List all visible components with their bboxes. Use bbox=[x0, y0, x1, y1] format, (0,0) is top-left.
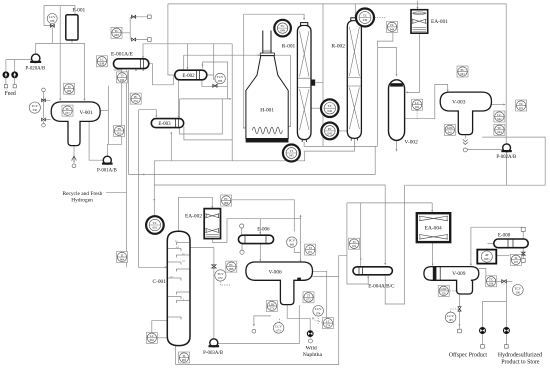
wire signal LCV-105 bbox=[451, 309, 460, 312]
svg-text:LDC: LDC bbox=[441, 287, 447, 291]
wire signal LCV-V006 bbox=[317, 316, 319, 325]
svg-text:TI: TI bbox=[68, 85, 71, 89]
svg-text:LCV: LCV bbox=[275, 324, 282, 328]
controller LCV-073 bbox=[273, 323, 284, 334]
svg-text:Recycle and Fresh: Recycle and Fresh bbox=[62, 191, 102, 197]
svg-text:043: 043 bbox=[460, 73, 465, 76]
svg-text:LC: LC bbox=[415, 101, 419, 105]
wire R-002 bottom outlet to left bbox=[154, 138, 354, 160]
svg-text:E-006: E-006 bbox=[257, 227, 270, 232]
wire offspec to tank stub bbox=[482, 334, 484, 345]
arrowhead E-002 shell loop bbox=[202, 64, 204, 66]
feed stub square A bbox=[4, 85, 7, 88]
svg-text:071: 071 bbox=[308, 251, 313, 254]
air cooler EA-004 bbox=[417, 213, 450, 242]
wire long separator liquid line bbox=[129, 70, 376, 174]
svg-text:064: 064 bbox=[120, 258, 125, 261]
svg-text:Wild: Wild bbox=[306, 345, 317, 351]
vessel V-009 bbox=[424, 267, 479, 294]
svg-text:PCV: PCV bbox=[289, 239, 296, 243]
exchanger E-008 bbox=[494, 239, 528, 248]
furnace H-001 bbox=[246, 31, 288, 143]
wire V-001 inlet header bbox=[36, 43, 85, 100]
svg-text:R-001: R-001 bbox=[282, 43, 296, 49]
svg-text:TCV: TCV bbox=[32, 104, 39, 108]
instrument TC-037 bbox=[62, 105, 73, 116]
instrument LDC-105 bbox=[438, 285, 449, 296]
wire E-002 shell loop bbox=[203, 62, 228, 86]
svg-text:PC: PC bbox=[229, 263, 233, 267]
instrument TI-063 bbox=[179, 352, 190, 363]
svg-text:Naphtha: Naphtha bbox=[303, 352, 323, 358]
svg-text:V-003: V-003 bbox=[452, 99, 466, 105]
V-001 drain valve bbox=[42, 118, 46, 121]
wire product to store stub bbox=[505, 334, 507, 345]
svg-text:V-001: V-001 bbox=[80, 110, 94, 116]
pump P-002A/B bbox=[501, 144, 511, 152]
svg-text:102: 102 bbox=[352, 245, 357, 248]
V-009 drain square bbox=[458, 329, 462, 333]
instrument PC-045 loop bbox=[321, 122, 338, 139]
wire signal LC-074 link bbox=[313, 320, 322, 323]
instrument TI-107 bbox=[510, 254, 521, 265]
wire E-008 upper stub bbox=[522, 231, 524, 239]
instrument PC-060 bbox=[221, 195, 232, 206]
arrowhead V-002 bottoms bbox=[396, 149, 398, 151]
controller LCV-074 bbox=[313, 306, 324, 317]
svg-text:E-001A/E: E-001A/E bbox=[111, 51, 134, 57]
arrowhead E-006 out bbox=[259, 259, 261, 261]
product to store valve bbox=[503, 328, 509, 334]
arrowhead into EA-002 bbox=[211, 206, 213, 208]
wire E-008 lower stub bbox=[522, 248, 524, 259]
svg-text:009: 009 bbox=[67, 90, 72, 93]
svg-text:P-001A/B: P-001A/B bbox=[97, 168, 118, 173]
wire C-001 reboil loop bbox=[152, 321, 167, 332]
relief square lower bbox=[148, 38, 152, 42]
svg-text:TC: TC bbox=[497, 126, 501, 130]
svg-text:036: 036 bbox=[33, 109, 38, 112]
instrument LDC-041 bbox=[444, 124, 455, 135]
instrument TI-064 bbox=[117, 252, 128, 263]
svg-text:074: 074 bbox=[316, 312, 321, 315]
svg-text:038: 038 bbox=[100, 63, 105, 66]
wire signal AT-E008 bbox=[486, 248, 488, 250]
valve on E-008 stub bbox=[521, 252, 525, 255]
instrument TC-048 F-001 bbox=[111, 27, 122, 38]
wire wild naphtha valve drop bbox=[309, 318, 311, 338]
wire wild naphtha line bbox=[287, 305, 310, 319]
svg-text:069: 069 bbox=[290, 244, 295, 247]
column C-001 tray numbers bbox=[170, 240, 185, 301]
air cooler EA-002 bbox=[204, 209, 220, 239]
instrument PC-068 bbox=[226, 261, 237, 272]
wire P-002 suction bbox=[468, 149, 503, 151]
arrowhead into C-001 feed nozzle bbox=[165, 266, 167, 268]
wire F-001 outlet drop bbox=[71, 40, 73, 43]
V-001 drain circle bbox=[42, 123, 46, 127]
wire F-001 top loop bbox=[44, 6, 75, 15]
svg-text:046: 046 bbox=[328, 109, 333, 113]
wire E-002 top drop bbox=[187, 44, 189, 69]
instrument LC-042 bbox=[494, 111, 505, 122]
svg-text:049: 049 bbox=[390, 28, 395, 31]
arrowhead E-001A/E bottom b bbox=[142, 69, 144, 71]
wire V-003 boot outlet bbox=[464, 135, 466, 139]
controller TCV-036 bbox=[29, 102, 40, 113]
pump P-003A/B bbox=[209, 339, 220, 347]
controller LCV-105 bbox=[445, 312, 456, 323]
svg-text:072: 072 bbox=[306, 299, 311, 302]
instrument TC-061 loop bbox=[146, 216, 164, 234]
arrowhead into E-004 top bbox=[384, 263, 386, 265]
wire R-002 PC tap bbox=[339, 130, 347, 132]
svg-text:TC: TC bbox=[114, 29, 118, 33]
svg-text:061: 061 bbox=[153, 226, 158, 230]
offspec stub square bbox=[481, 345, 485, 349]
wire E-008 left stub bbox=[488, 242, 494, 244]
arrowhead into E-002 top bbox=[187, 67, 189, 69]
arrowhead into EA-001 bbox=[417, 7, 419, 9]
svg-text:070: 070 bbox=[218, 277, 223, 280]
wire E-008 outlet to V-009 bbox=[470, 227, 472, 265]
controller TCV-070 bbox=[215, 270, 226, 281]
wire V-002 gas to V-003 bbox=[405, 84, 448, 118]
svg-text:106: 106 bbox=[516, 291, 521, 294]
V-001 vent circle bbox=[42, 88, 46, 92]
svg-text:TC: TC bbox=[363, 14, 368, 18]
wire F-001 relief header bbox=[122, 17, 148, 40]
svg-text:Hydrogen: Hydrogen bbox=[71, 197, 93, 203]
wire E-002 to E-003 bbox=[178, 80, 180, 118]
wire R-001 bottom outlet bbox=[304, 142, 377, 147]
wire V-009 boot outlet bbox=[459, 294, 461, 330]
pump P-001A/B bbox=[102, 156, 113, 164]
wire stripping gas to V-001 bbox=[59, 6, 61, 100]
svg-text:TC: TC bbox=[280, 24, 285, 28]
wild naphtha circle bbox=[308, 339, 312, 343]
svg-text:106: 106 bbox=[489, 283, 494, 286]
instrument LC-041 bbox=[412, 99, 423, 110]
wire branch to EA-004 bbox=[431, 203, 433, 212]
svg-text:Feed: Feed bbox=[5, 91, 16, 97]
arrowhead long line junction bbox=[143, 173, 145, 175]
wire E-006 vent stem bbox=[241, 228, 243, 235]
svg-text:TC: TC bbox=[328, 104, 333, 108]
svg-text:P-002A/B: P-002A/B bbox=[496, 155, 517, 160]
svg-text:062: 062 bbox=[150, 339, 155, 342]
svg-text:LDC: LDC bbox=[447, 126, 453, 130]
wire R-002 feed riser bbox=[377, 33, 393, 147]
svg-text:TI: TI bbox=[309, 246, 312, 250]
V-001 drain circle small bbox=[72, 164, 76, 168]
wire V-001 gas riser bbox=[107, 86, 109, 145]
svg-text:044: 044 bbox=[497, 131, 502, 134]
arrowhead into V-009 top right bbox=[470, 264, 472, 266]
wire C-001 overhead to EA-002 bbox=[179, 197, 213, 231]
svg-text:TI: TI bbox=[121, 74, 124, 78]
instrument TS-051 bbox=[114, 125, 125, 136]
svg-text:LCV: LCV bbox=[315, 307, 322, 311]
svg-text:TCV: TCV bbox=[217, 75, 224, 79]
wire V-009 gas outlet bbox=[479, 268, 486, 275]
furnace H-001 radiant coil bbox=[252, 127, 282, 134]
instrument PC-052 bbox=[130, 93, 141, 104]
relief valve lower bbox=[132, 38, 136, 41]
controller TCV-050 bbox=[215, 73, 225, 83]
svg-text:073: 073 bbox=[276, 329, 281, 332]
air cooler EA-001 bbox=[411, 10, 428, 34]
instrument LC-074 bbox=[322, 318, 333, 329]
relief square upper bbox=[148, 15, 152, 19]
svg-text:107: 107 bbox=[514, 261, 519, 264]
svg-text:PC: PC bbox=[328, 127, 333, 131]
reactor R-001 bbox=[297, 23, 315, 142]
wire E-003 shell outlet bbox=[184, 127, 232, 140]
svg-text:TC: TC bbox=[519, 102, 523, 106]
wire V-006 level line bbox=[313, 271, 327, 317]
svg-text:H-001: H-001 bbox=[260, 108, 274, 114]
wire E-008 top header bbox=[471, 226, 523, 228]
wire signal TCV-070 bbox=[220, 282, 230, 286]
svg-text:051: 051 bbox=[117, 132, 122, 135]
controller LCV-039 bbox=[47, 14, 57, 24]
wire feed valve stubs bbox=[6, 78, 15, 85]
instrument TI-009 bbox=[64, 83, 75, 94]
svg-text:0331: 0331 bbox=[484, 258, 490, 261]
svg-text:V-002: V-002 bbox=[405, 140, 419, 146]
instrument LDC-073 bbox=[266, 301, 277, 312]
wire signal LC-041 tap bbox=[416, 110, 418, 119]
wire V-002 top inlet bbox=[378, 48, 397, 76]
wire recycle line from E-002 bbox=[231, 44, 233, 161]
svg-text:Hydrodesulfurized: Hydrodesulfurized bbox=[498, 352, 542, 359]
wire V-001 gas outlet bbox=[100, 110, 108, 112]
wire R-002 feed drop bbox=[354, 4, 356, 17]
svg-text:049: 049 bbox=[363, 18, 368, 22]
arrowhead sour water bbox=[459, 324, 461, 326]
arrowhead into H-001 convection coil bbox=[258, 54, 260, 56]
svg-text:101: 101 bbox=[519, 107, 524, 110]
wire V-003 liquid to E-004/EA-004 bbox=[405, 137, 546, 203]
wire PCV-069 outlet bbox=[294, 248, 300, 253]
wire V-002 bottom outlet bbox=[396, 140, 398, 150]
arrowhead into E-004 bottom left bbox=[367, 276, 369, 278]
arrowhead into E-003 from E-002 bbox=[178, 116, 180, 118]
svg-text:TC: TC bbox=[390, 23, 394, 27]
arrowhead on E-003 riser bbox=[153, 199, 155, 201]
wire V-006 top vent bbox=[300, 215, 302, 219]
instrument TC-048 loop bbox=[274, 20, 291, 37]
wire E-003 cold inlet bbox=[139, 110, 157, 117]
wire P-001 discharge riser bbox=[107, 70, 121, 156]
vessel V-002 bbox=[389, 80, 405, 141]
instrument TI-045 loop bbox=[283, 145, 300, 162]
wild naphtha valve bbox=[307, 331, 313, 337]
svg-text:Product to Store: Product to Store bbox=[501, 359, 540, 365]
svg-text:EA-004: EA-004 bbox=[425, 226, 442, 232]
svg-text:C-001: C-001 bbox=[152, 279, 166, 285]
valve on P-003 line bbox=[212, 265, 216, 268]
instrument TC-101 bbox=[516, 100, 527, 111]
arrowhead gas join bbox=[503, 104, 505, 106]
wire V-006 water drain bbox=[254, 316, 271, 326]
svg-text:AT: AT bbox=[485, 253, 489, 257]
E-008 bottom square bbox=[521, 258, 525, 262]
svg-text:TI: TI bbox=[353, 240, 356, 244]
wire liquid header split bbox=[347, 202, 432, 204]
wire P-002 discharge bbox=[506, 152, 508, 185]
wire E-004 outlet riser bbox=[360, 203, 362, 267]
store stub square bbox=[505, 345, 509, 349]
wire V-001 vent fittings bbox=[44, 92, 51, 124]
svg-text:TS: TS bbox=[117, 127, 121, 131]
wire P-003 discharge bbox=[218, 305, 299, 344]
wire hydrogen quench line bbox=[322, 4, 324, 147]
svg-text:TI: TI bbox=[182, 354, 185, 358]
controller TCV-106 bbox=[512, 285, 523, 296]
instrument TC-106 bbox=[486, 276, 497, 287]
svg-text:LCV: LCV bbox=[447, 314, 454, 318]
wire E-002 to convection coil bbox=[184, 55, 260, 70]
V-003 boot chevrons bbox=[463, 140, 468, 145]
arrowhead into E-001A/E bbox=[142, 56, 144, 58]
svg-text:Offspec Product: Offspec Product bbox=[449, 352, 488, 359]
svg-text:105: 105 bbox=[448, 319, 453, 322]
instrument TI-071 bbox=[305, 244, 316, 255]
wire product rundown bbox=[505, 281, 507, 327]
wire branch to E-004 right end bbox=[385, 203, 404, 304]
vessel V-001 bbox=[51, 102, 100, 146]
wire EA-002 outlet to V-006 bbox=[213, 219, 301, 262]
V-003 drain circle bbox=[463, 148, 467, 152]
controller PCV-069 bbox=[287, 237, 297, 247]
arrowhead into V-009 top bbox=[432, 264, 434, 266]
valve under LCV-039 bbox=[50, 24, 54, 27]
svg-text:039: 039 bbox=[50, 20, 55, 23]
V-001 vent valve bbox=[42, 99, 46, 102]
arrowhead into V-002 top bbox=[396, 74, 398, 76]
wire PC-060 to PCV-069 bbox=[232, 200, 294, 232]
svg-text:068: 068 bbox=[229, 268, 234, 271]
wire top recycle-gas header bbox=[168, 4, 506, 144]
svg-text:048: 048 bbox=[114, 34, 119, 37]
instrument TI-072 bbox=[303, 292, 314, 303]
pump P-020A/B bbox=[30, 54, 41, 62]
feed valve A bbox=[3, 72, 9, 78]
arrowhead into E-006 bbox=[259, 232, 261, 234]
wire stripper feed line bbox=[139, 110, 167, 268]
vessel V-006 bbox=[246, 262, 313, 305]
svg-text:TCV: TCV bbox=[217, 272, 224, 276]
wire EA-001 inlet drop bbox=[417, 1, 419, 9]
svg-text:LC: LC bbox=[497, 113, 501, 117]
svg-text:P-003A/B: P-003A/B bbox=[203, 351, 224, 356]
wire signal TCV-106 bbox=[504, 281, 512, 284]
exchanger E-001A/E bbox=[114, 59, 149, 69]
arrowhead into E-003 bottom bbox=[170, 132, 172, 134]
product control valve bbox=[502, 280, 507, 283]
wire heater outlet to R-001 bbox=[244, 14, 304, 19]
svg-text:E-008: E-008 bbox=[498, 234, 511, 239]
exchanger E-004A/B/C bbox=[353, 267, 392, 275]
exchanger E-002 bbox=[175, 70, 207, 80]
svg-text:E-002: E-002 bbox=[182, 74, 195, 79]
V-001 boot Y-strainer bbox=[72, 156, 77, 163]
arrowhead E-001A/E bottom a bbox=[135, 69, 137, 71]
E-008 top square bbox=[521, 227, 525, 231]
wire E-002 outlet to fuel valve bbox=[202, 80, 228, 99]
wire P-001 suction bbox=[89, 121, 103, 160]
svg-text:045: 045 bbox=[328, 132, 333, 136]
reactor R-002 bbox=[347, 18, 361, 141]
svg-text:PC: PC bbox=[134, 95, 138, 99]
svg-text:PC: PC bbox=[224, 197, 228, 201]
wire LCV-039 drop bbox=[44, 6, 52, 44]
wire hydrogen makeup tie-in bbox=[106, 70, 126, 267]
wire signal TC-049 bbox=[375, 17, 387, 19]
wire V-006 gas outlet bbox=[313, 276, 339, 278]
exchanger E-006 bbox=[238, 235, 273, 243]
svg-text:TC: TC bbox=[153, 221, 158, 225]
svg-text:041: 041 bbox=[448, 131, 453, 134]
arrowhead wild naphtha junction bbox=[312, 317, 314, 319]
wire recycle riser from E-002 to header bbox=[168, 4, 175, 75]
svg-text:LCV: LCV bbox=[49, 15, 56, 19]
wire fuel line to TCV-050 bbox=[207, 44, 214, 80]
svg-text:TI: TI bbox=[514, 256, 517, 260]
svg-text:052: 052 bbox=[134, 100, 139, 103]
svg-text:010: 010 bbox=[120, 79, 125, 82]
feed stub square B bbox=[13, 85, 16, 88]
arrowhead into EA-004 top bbox=[431, 210, 433, 212]
arrowhead into V-001 left nozzle bbox=[59, 99, 61, 101]
svg-text:TI: TI bbox=[120, 253, 123, 257]
instrument TC-049 loop bbox=[356, 9, 374, 27]
svg-text:LC: LC bbox=[150, 334, 154, 338]
svg-text:TI: TI bbox=[307, 294, 310, 298]
svg-text:TC: TC bbox=[489, 278, 493, 282]
wire C-001 side to P-003 suction bbox=[190, 248, 214, 339]
valve V-009 boot bbox=[458, 307, 461, 311]
svg-text:060: 060 bbox=[224, 202, 229, 205]
wire E-001A/E tube-side header bbox=[143, 43, 232, 45]
instrument PC-043 bbox=[457, 66, 468, 77]
wire E-003 riser tee bbox=[153, 161, 155, 216]
column C-001 bbox=[167, 231, 190, 345]
feed valve B bbox=[12, 72, 18, 78]
svg-text:042: 042 bbox=[497, 118, 502, 121]
wire AT to TI-106 link bbox=[496, 255, 509, 257]
wire E-006 outlet to V-006 bbox=[259, 244, 261, 261]
wire EA-001 outlet to V-002 bbox=[406, 33, 419, 92]
arrowhead into V-002 side bbox=[406, 91, 408, 93]
V-006 drain circle bbox=[252, 329, 256, 333]
svg-text:073: 073 bbox=[270, 307, 275, 310]
wire E-006 drain stem bbox=[241, 244, 243, 251]
wire E-001A/E tube inlet drop bbox=[142, 44, 144, 58]
svg-text:PC: PC bbox=[461, 68, 465, 72]
exchanger E-003 bbox=[151, 119, 183, 128]
svg-text:EA-001: EA-001 bbox=[431, 19, 448, 25]
svg-text:V-006: V-006 bbox=[268, 270, 282, 276]
svg-text:TCV: TCV bbox=[515, 286, 522, 290]
arrowhead into V-003 inlet bbox=[447, 90, 449, 92]
arrowhead into V-006 top bbox=[300, 260, 302, 262]
svg-text:LC: LC bbox=[100, 58, 104, 62]
svg-text:037: 037 bbox=[65, 112, 70, 115]
arrowhead water drain bbox=[253, 324, 255, 326]
